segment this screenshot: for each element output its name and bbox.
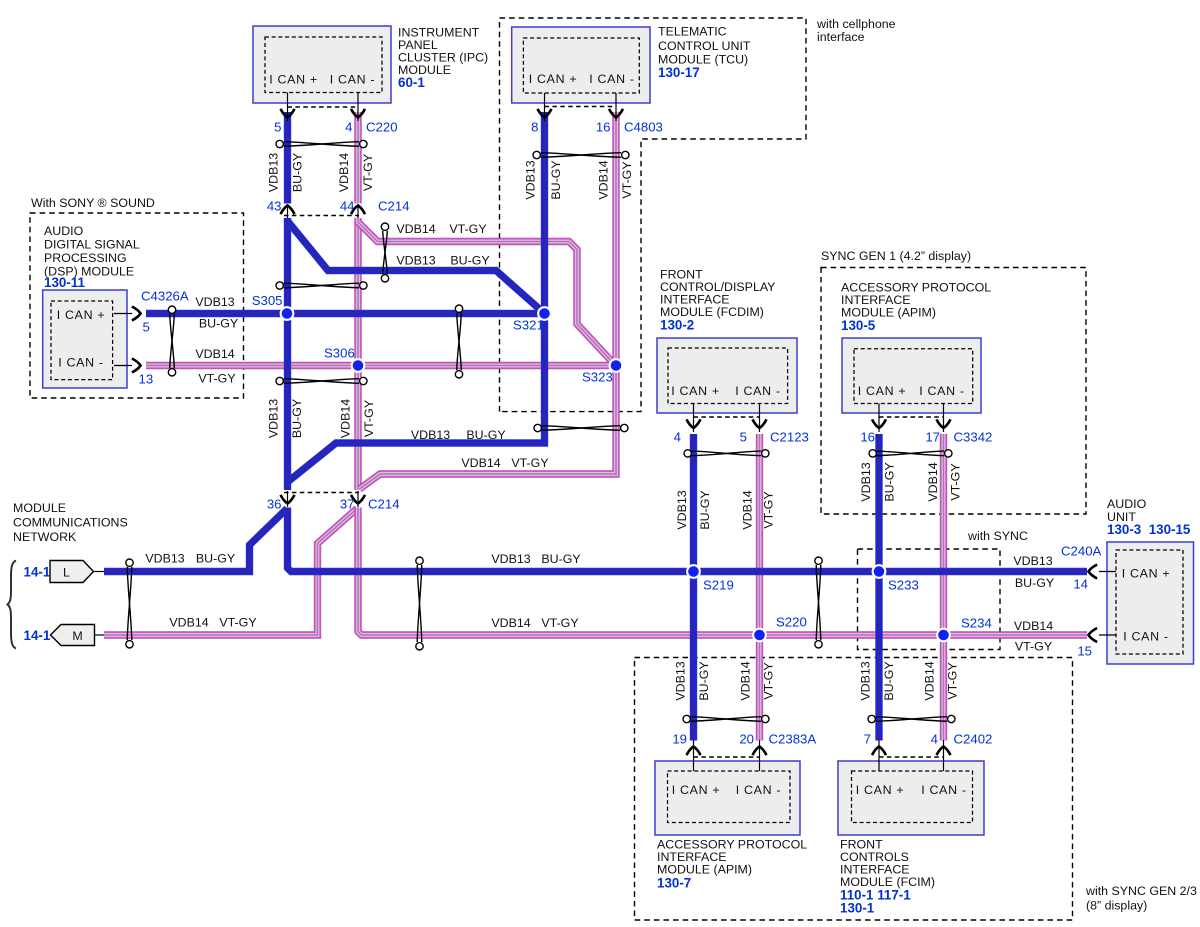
svg-text:PROCESSING: PROCESSING <box>44 251 127 265</box>
svg-text:C4326A: C4326A <box>141 289 189 304</box>
svg-text:S219: S219 <box>703 578 734 593</box>
svg-text:I CAN -: I CAN - <box>1123 630 1169 644</box>
FCDIM pin 4 lead arrow <box>687 404 701 433</box>
svg-text:VDB13: VDB13 <box>524 160 538 199</box>
twisted pair symbol TCU lower <box>534 424 628 431</box>
svg-text:C220: C220 <box>366 120 398 135</box>
connector C4326A <box>141 289 189 304</box>
twisted pair symbol below S306 <box>276 377 367 384</box>
svg-text:VT-GY: VT-GY <box>948 463 962 500</box>
twisted pair symbol buses before S233 <box>815 557 822 648</box>
twisted pair symbol above S305 <box>276 282 367 289</box>
pin 7 C2402 <box>864 732 871 747</box>
rotated labels APIM drop <box>859 462 963 501</box>
pin 16 C3342 <box>860 430 875 445</box>
wire VDB14 from TCU pin 16 through S323 to C214 pin 37 <box>360 112 617 489</box>
svg-text:VDB13: VDB13 <box>1013 554 1052 568</box>
FCIM pin 4 arrow <box>937 740 951 771</box>
svg-text:5: 5 <box>143 320 150 335</box>
wire VDB14 from APIM pin 17 through S234 to FCIM pin 4 <box>940 434 947 741</box>
wire VDB13 from C214 pin 43 down to C214 pin 36 <box>284 218 291 490</box>
wire VDB13 from APIM pin 16 through S233 to FCIM pin 7 <box>875 434 882 741</box>
svg-text:130-5: 130-5 <box>841 318 876 333</box>
pin 5 C4326A <box>143 320 150 335</box>
svg-text:15: 15 <box>1077 644 1092 659</box>
svg-text:8: 8 <box>531 120 538 135</box>
svg-text:5: 5 <box>274 120 281 135</box>
splice S233 <box>872 564 887 579</box>
pin 36 C214 <box>267 497 282 512</box>
wire VDB14 from C214 pin 44 down to C214 pin 37 <box>354 218 361 490</box>
svg-text:L: L <box>63 566 70 580</box>
svg-text:CONTROL UNIT: CONTROL UNIT <box>658 39 751 53</box>
module AUDIO UNIT <box>1107 497 1194 664</box>
wire VDB14 branch from C214 to splice S323 <box>358 222 616 366</box>
twisted pair symbol TCU drop <box>533 151 629 158</box>
DSP I CAN+ lead arrow <box>114 307 141 321</box>
svg-text:4: 4 <box>345 120 352 135</box>
svg-text:TELEMATIC: TELEMATIC <box>658 25 727 39</box>
svg-text:VDB13: VDB13 <box>491 552 530 566</box>
svg-text:VT-GY: VT-GY <box>945 662 959 699</box>
label VDB13 BU-GY at audio unit <box>1013 554 1054 590</box>
label S234 <box>961 616 992 631</box>
svg-text:VDB14: VDB14 <box>396 222 435 236</box>
svg-text:130-7: 130-7 <box>657 876 691 891</box>
rotated labels below S306 <box>266 399 376 438</box>
svg-text:VDB14: VDB14 <box>338 399 352 438</box>
module APIM 130-7 (accessory protocol interface, bottom) <box>655 761 807 891</box>
svg-text:VT-GY: VT-GY <box>541 616 578 630</box>
svg-text:VDB13: VDB13 <box>859 462 873 501</box>
splice S321 <box>537 306 552 321</box>
svg-text:With SONY ® SOUND: With SONY ® SOUND <box>31 196 155 210</box>
svg-text:I CAN -: I CAN - <box>735 384 781 398</box>
svg-text:VDB14: VDB14 <box>337 153 351 192</box>
svg-text:VT-GY: VT-GY <box>620 161 634 198</box>
svg-text:VDB13: VDB13 <box>858 661 872 700</box>
connector tag L (14-1) <box>24 561 105 583</box>
TCU pin 16 lead arrow <box>609 93 623 121</box>
svg-text:4: 4 <box>931 732 938 747</box>
svg-text:BU-GY: BU-GY <box>290 153 304 192</box>
twisted pair symbol buses mid-left <box>416 557 423 650</box>
svg-text:VDB13: VDB13 <box>145 552 184 566</box>
twisted pair symbol above APIM 130-7 <box>683 715 769 722</box>
wire VDB14 bus from C214 pin 37 through S220 and S234 to audio unit <box>358 508 1087 636</box>
label VDB14 VT-GY at DSP <box>195 347 235 386</box>
twisted pair symbol FCDIM drop <box>684 450 769 457</box>
svg-text:36: 36 <box>267 497 282 512</box>
svg-text:I CAN +: I CAN + <box>1122 567 1171 581</box>
pin 19 C2383A <box>672 732 687 747</box>
svg-text:MODULE: MODULE <box>13 501 66 515</box>
svg-text:44: 44 <box>340 199 355 214</box>
svg-text:VDB14: VDB14 <box>461 456 500 470</box>
label S323 <box>582 370 613 385</box>
option region: with cellphone interface dashed outline <box>500 17 896 412</box>
svg-text:VT-GY: VT-GY <box>219 616 256 630</box>
svg-text:BU-GY: BU-GY <box>290 399 304 438</box>
svg-text:BU-GY: BU-GY <box>698 490 712 529</box>
connector C220 <box>366 120 398 135</box>
svg-text:BU-GY: BU-GY <box>541 552 580 566</box>
connector C220 dashed line <box>288 106 359 108</box>
svg-text:S323: S323 <box>582 370 613 385</box>
svg-text:AUDIO: AUDIO <box>44 224 84 238</box>
svg-text:17: 17 <box>925 430 940 445</box>
APIM pin 17 lead arrow <box>937 404 951 433</box>
label VDB13 BU-GY branch <box>396 254 489 268</box>
twisted pair symbol buses at L/M <box>126 559 133 648</box>
connector C3342 <box>954 430 993 445</box>
twisted pair symbol APIM drop <box>869 450 952 457</box>
svg-text:60-1: 60-1 <box>398 75 425 90</box>
pin 43 C214 <box>267 199 282 214</box>
svg-text:(8” display): (8” display) <box>1086 899 1147 913</box>
connector C2383A dashed line <box>694 756 760 758</box>
audio unit I CAN+ lead arrow <box>1089 565 1117 579</box>
splice S234 <box>936 628 951 643</box>
wire VDB14 from FCDIM pin 5 through S220 to APIM pin 20 <box>756 434 763 741</box>
connector C2402 dashed line <box>879 756 944 758</box>
splice S220 <box>752 628 767 643</box>
label S233 <box>888 578 919 593</box>
rotated labels above APIM 130-7 <box>673 661 775 700</box>
svg-text:13: 13 <box>139 372 154 387</box>
svg-text:I CAN -: I CAN - <box>58 356 104 370</box>
svg-text:BU-GY: BU-GY <box>196 552 235 566</box>
connector C4803 dashed line <box>545 106 617 108</box>
C214 pin 43 arrow <box>281 204 295 218</box>
svg-text:19: 19 <box>672 732 687 747</box>
svg-text:VT-GY: VT-GY <box>511 456 548 470</box>
option region: With SONY SOUND dashed box <box>30 196 244 398</box>
svg-text:with cellphone: with cellphone <box>816 17 896 31</box>
FCDIM pin 5 lead arrow <box>753 404 767 433</box>
module IPC (instrument panel cluster) <box>253 26 488 104</box>
label S306 <box>324 346 355 361</box>
pin 20 C2383A <box>739 732 754 747</box>
rotated labels TCU drop <box>524 160 634 199</box>
svg-text:7: 7 <box>864 732 871 747</box>
svg-text:C2123: C2123 <box>770 430 809 445</box>
svg-text:VT-GY: VT-GY <box>761 662 775 699</box>
svg-text:130-3 130-15: 130-3 130-15 <box>1107 522 1191 537</box>
svg-text:C214: C214 <box>378 199 410 214</box>
connector C2123 <box>770 430 809 445</box>
pin 44 C214 <box>340 199 355 214</box>
svg-text:M: M <box>72 629 82 643</box>
wire VDB13 from FCDIM pin 4 through S219 to APIM pin 19 <box>690 434 697 741</box>
module DSP (audio digital signal processing) <box>43 224 140 388</box>
svg-text:20: 20 <box>739 732 754 747</box>
rotated labels FCDIM drop <box>675 490 776 529</box>
svg-text:43: 43 <box>267 199 282 214</box>
svg-text:VDB14: VDB14 <box>738 661 752 700</box>
svg-text:130-2: 130-2 <box>660 318 694 333</box>
svg-text:BU-GY: BU-GY <box>1015 576 1054 590</box>
label S220 <box>776 615 807 630</box>
svg-text:VT-GY: VT-GY <box>449 222 486 236</box>
connector C4803 <box>624 120 663 135</box>
svg-text:S321: S321 <box>513 318 544 333</box>
wire VDB13 branch from C214 to splice S321 <box>288 221 545 314</box>
svg-text:S305: S305 <box>252 293 283 308</box>
svg-text:VDB13: VDB13 <box>675 490 689 529</box>
wire VDB14 bus from DSP C4326A through S306 to S323 <box>146 362 616 369</box>
svg-text:I CAN +: I CAN + <box>672 783 721 797</box>
svg-text:14: 14 <box>1073 577 1088 592</box>
C214 pin 36 arrow <box>281 491 295 507</box>
wire VDB14 bus from connector M to C214 pin 37 <box>104 509 357 636</box>
IPC pin 5 lead arrow <box>281 93 295 122</box>
svg-text:BU-GY: BU-GY <box>549 160 563 199</box>
svg-text:S220: S220 <box>776 615 807 630</box>
pin 37 C214 <box>340 497 355 512</box>
svg-text:C4803: C4803 <box>624 120 663 135</box>
svg-text:I CAN -: I CAN - <box>330 73 376 87</box>
svg-text:130-17: 130-17 <box>658 65 700 80</box>
rotated labels IPC drop <box>266 153 375 192</box>
svg-text:5: 5 <box>740 430 747 445</box>
svg-text:SYNC GEN 1 (4.2” display): SYNC GEN 1 (4.2” display) <box>821 249 971 263</box>
connector C2123 dashed line <box>694 416 760 418</box>
svg-text:VDB14: VDB14 <box>926 462 940 501</box>
connector C2402 <box>954 732 993 747</box>
svg-text:I CAN -: I CAN - <box>921 783 967 797</box>
wire VDB13 bus from C214 pin 36 through S219 and S233 to audio unit <box>288 508 1088 572</box>
svg-text:VDB14: VDB14 <box>491 616 530 630</box>
wire VDB14 from IPC pin 4 to C214 pin 44 <box>354 112 361 204</box>
svg-text:with SYNC: with SYNC <box>967 529 1028 543</box>
connector C214 bottom <box>368 497 400 512</box>
svg-text:I CAN +: I CAN + <box>269 73 318 87</box>
svg-text:VDB14: VDB14 <box>1014 619 1053 633</box>
rotated labels above FCIM <box>858 661 959 700</box>
option region: with SYNC dashed box <box>858 529 1028 650</box>
splice S219 <box>686 564 701 579</box>
connector C2383A <box>769 732 817 747</box>
svg-text:COMMUNICATIONS: COMMUNICATIONS <box>13 516 128 530</box>
twisted pair symbol above FCIM <box>868 715 955 722</box>
svg-text:DIGITAL SIGNAL: DIGITAL SIGNAL <box>44 238 140 252</box>
C214 pin 37 arrow <box>351 491 365 507</box>
svg-text:VDB14: VDB14 <box>195 347 234 361</box>
svg-text:interface: interface <box>817 30 865 44</box>
pin 17 C3342 <box>925 430 940 445</box>
svg-text:VDB14: VDB14 <box>596 160 610 199</box>
label VDB13 BU-GY at DSP <box>195 295 238 331</box>
option region: with SYNC GEN 2/3 dashed box <box>635 658 1197 921</box>
svg-text:MODULE (APIM): MODULE (APIM) <box>657 863 752 877</box>
connector tag M (14-1) <box>24 625 105 646</box>
svg-text:S233: S233 <box>888 578 919 593</box>
wire VDB13 from IPC pin 5 to C214 pin 43 <box>284 112 291 204</box>
svg-text:AUDIO: AUDIO <box>1107 497 1147 511</box>
APIM pin 16 lead arrow <box>872 404 886 433</box>
wire VDB13 from TCU pin 8 through S321 to C214 pin 36 <box>288 112 545 482</box>
svg-text:NETWORK: NETWORK <box>13 530 77 544</box>
network brace <box>8 561 17 649</box>
svg-text:VDB13: VDB13 <box>411 428 450 442</box>
label VDB13 BU-GY lower branch <box>411 428 506 442</box>
audio unit I CAN- lead arrow <box>1089 628 1117 642</box>
svg-text:C3342: C3342 <box>954 430 993 445</box>
svg-text:VDB13: VDB13 <box>673 661 687 700</box>
svg-text:S234: S234 <box>961 616 992 631</box>
svg-text:VT-GY: VT-GY <box>361 154 375 191</box>
connector C3342 dashed line <box>879 416 944 418</box>
pin 4 C2402 <box>931 732 938 747</box>
svg-text:4: 4 <box>674 430 681 445</box>
svg-text:14-1: 14-1 <box>24 565 51 580</box>
pin 5 C2123 <box>740 430 747 445</box>
svg-text:BU-GY: BU-GY <box>199 317 238 331</box>
label S219 <box>703 578 734 593</box>
APIM 130-7 pin 19 arrow <box>687 740 701 771</box>
svg-text:I CAN -: I CAN - <box>919 384 965 398</box>
svg-text:VDB14: VDB14 <box>169 616 208 630</box>
label VDB14 VT-GY bus mid <box>491 616 578 630</box>
C214 pin 44 arrow <box>351 204 365 218</box>
label VDB13 BU-GY at connector L <box>145 552 235 566</box>
svg-text:C240A: C240A <box>1061 544 1102 559</box>
svg-text:BU-GY: BU-GY <box>882 462 896 501</box>
twisted pair symbol S305/S306 buses <box>455 305 462 378</box>
wire VDB13 bus from connector L to C214 pin 36 <box>104 509 287 572</box>
option region: SYNC GEN 1 dashed box <box>821 249 1086 514</box>
splice S323 <box>609 358 624 373</box>
module TCU (telematic control unit) <box>512 25 751 104</box>
svg-text:S306: S306 <box>324 346 355 361</box>
svg-text:BU-GY: BU-GY <box>466 428 505 442</box>
svg-text:16: 16 <box>860 430 875 445</box>
module FCIM (front controls interface) <box>838 761 984 916</box>
DSP I CAN- lead arrow <box>114 359 141 373</box>
IPC pin 4 lead arrow <box>351 93 365 122</box>
TCU pin 8 lead arrow <box>538 93 552 121</box>
label VDB13 BU-GY bus mid <box>491 552 580 566</box>
module APIM 130-5 (accessory protocol interface) <box>841 281 991 414</box>
connector C214 top <box>378 199 410 214</box>
svg-text:I CAN +: I CAN + <box>671 384 720 398</box>
twisted pair symbol DSP drop <box>168 306 175 376</box>
pin 13 C4326A <box>139 372 154 387</box>
pin 4 C220 <box>345 120 352 135</box>
svg-text:BU-GY: BU-GY <box>697 661 711 700</box>
svg-text:VDB13: VDB13 <box>266 399 280 438</box>
pin 4 C2123 <box>674 430 681 445</box>
svg-text:37: 37 <box>340 497 355 512</box>
svg-text:I CAN +: I CAN + <box>57 308 106 322</box>
pin 15 C240A <box>1077 644 1092 659</box>
svg-text:VDB13: VDB13 <box>195 295 234 309</box>
connector C214 row 43/44 dashed line <box>284 215 359 217</box>
splice S306 <box>351 358 366 373</box>
svg-text:VDB14: VDB14 <box>922 661 936 700</box>
svg-text:with SYNC GEN 2/3: with SYNC GEN 2/3 <box>1085 884 1197 898</box>
svg-text:C2402: C2402 <box>954 732 993 747</box>
svg-text:C214: C214 <box>368 497 400 512</box>
svg-text:14-1: 14-1 <box>24 628 51 643</box>
svg-text:130-11: 130-11 <box>44 275 86 290</box>
svg-text:VDB14: VDB14 <box>740 490 754 529</box>
svg-text:I CAN +: I CAN + <box>529 72 578 86</box>
label MODULE COMMUNICATIONS NETWORK <box>13 501 128 544</box>
svg-text:VDB13: VDB13 <box>266 153 280 192</box>
pin 8 C4803 <box>531 120 538 135</box>
connector C214 row 36/37 dashed line <box>284 492 359 494</box>
svg-text:C2383A: C2383A <box>769 732 817 747</box>
svg-text:16: 16 <box>596 120 611 135</box>
connector C240A <box>1061 544 1102 559</box>
svg-text:VDB13: VDB13 <box>396 254 435 268</box>
splice S305 <box>280 306 295 321</box>
svg-text:I CAN +: I CAN + <box>856 783 905 797</box>
svg-text:I CAN -: I CAN - <box>589 72 635 86</box>
svg-text:BU-GY: BU-GY <box>450 254 489 268</box>
svg-text:VT-GY: VT-GY <box>761 491 775 528</box>
twisted pair symbol C214 branch <box>381 223 388 282</box>
svg-text:I CAN -: I CAN - <box>736 783 782 797</box>
FCIM pin 7 arrow <box>872 740 886 771</box>
svg-text:VT-GY: VT-GY <box>198 372 235 386</box>
label S321 <box>513 318 544 333</box>
module FCDIM (front control/display interface) <box>657 268 797 414</box>
label VDB14 VT-GY at connector M <box>169 616 256 630</box>
twisted pair symbol IPC drop <box>276 140 367 147</box>
pin 16 C4803 <box>596 120 611 135</box>
APIM 130-7 pin 20 arrow <box>753 740 767 771</box>
label VDB14 VT-GY branch <box>396 222 486 236</box>
label VDB14 VT-GY at audio unit <box>1014 619 1053 654</box>
pin 5 C220 <box>274 120 281 135</box>
svg-text:VT-GY: VT-GY <box>1015 640 1052 654</box>
pin 14 C240A <box>1073 577 1088 592</box>
svg-text:I CAN +: I CAN + <box>858 384 907 398</box>
label VDB14 VT-GY lower branch <box>461 456 548 470</box>
svg-text:VT-GY: VT-GY <box>362 400 376 437</box>
svg-text:BU-GY: BU-GY <box>882 661 896 700</box>
svg-text:130-1: 130-1 <box>840 901 875 916</box>
label S305 <box>252 293 283 308</box>
wire VDB13 bus from DSP C4326A through S305 to S321 <box>146 310 545 317</box>
